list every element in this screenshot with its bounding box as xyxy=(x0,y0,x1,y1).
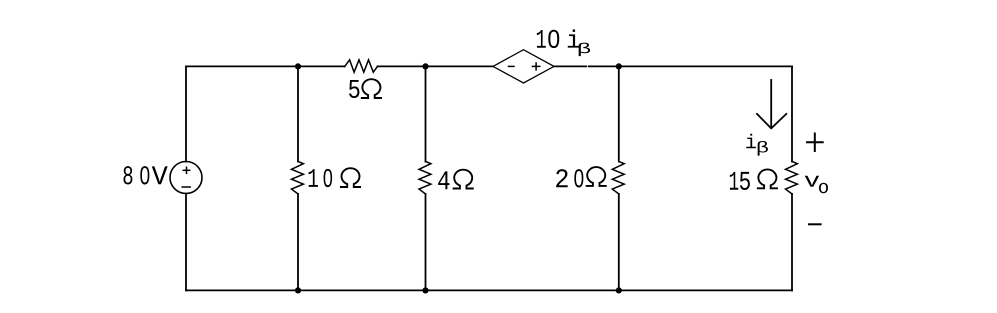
resistor R4 20ohm zigzag xyxy=(612,162,624,194)
resistor R3 4ohm zigzag xyxy=(419,162,431,194)
junction dot top branch3 xyxy=(616,63,622,69)
wire top middle xyxy=(378,65,494,67)
resistor R5 15ohm zigzag xyxy=(786,162,798,194)
wire left vertical lower xyxy=(185,194,187,291)
junction dot bottom branch2 xyxy=(422,287,428,293)
label 20 ohm digits xyxy=(556,169,583,187)
current arrow i beta shaft xyxy=(770,80,772,128)
omega glyph of 4 ohm xyxy=(454,170,473,189)
omega glyph of 5 ohm xyxy=(362,79,381,98)
omega glyph of 10 ohm xyxy=(341,168,360,187)
wire branch2 vertical lower xyxy=(425,194,427,291)
V1 minus sign xyxy=(182,186,190,188)
label 80V xyxy=(123,166,167,184)
current arrow i beta head xyxy=(757,114,786,128)
label 15 ohm digits xyxy=(730,172,750,190)
wire branch2 vertical upper xyxy=(425,66,427,161)
junction dot top branch2 xyxy=(422,63,428,69)
wire left vertical upper xyxy=(185,66,187,161)
junction dot bottom branch1 xyxy=(295,287,301,293)
omega glyph of 20 ohm xyxy=(587,167,606,186)
plus sign of vo xyxy=(807,141,823,143)
label 5 ohm digit xyxy=(349,80,359,98)
voltage source V1 circle xyxy=(170,162,202,194)
wire branch1 vertical upper xyxy=(297,66,299,161)
resistor R1 5ohm zigzag xyxy=(345,60,378,72)
junction dot bottom branch3 xyxy=(616,287,622,293)
wire diamond to gap xyxy=(554,65,586,67)
label 10 i-beta value xyxy=(537,29,590,56)
label 10 ohm digits xyxy=(309,169,333,187)
wire right vertical lower xyxy=(791,194,793,291)
E1 minus sign xyxy=(509,65,515,67)
E1 plus sign xyxy=(532,65,539,67)
wire branch1 vertical lower xyxy=(297,194,299,291)
junction dot top branch1 xyxy=(295,63,301,69)
V1 plus sign xyxy=(183,169,189,171)
dependent source E1 diamond xyxy=(493,50,554,83)
label 4 ohm digit xyxy=(438,171,449,189)
label vo xyxy=(805,176,828,193)
wire branch3 vertical upper xyxy=(618,66,620,161)
wire bottom horizontal xyxy=(186,289,792,291)
label i-beta current xyxy=(746,134,768,156)
wire right vertical upper xyxy=(791,66,793,161)
omega glyph of 15 ohm xyxy=(758,169,777,188)
wire gap to right corner xyxy=(589,65,792,67)
wire branch3 vertical lower xyxy=(618,194,620,291)
wire top left horizontal xyxy=(186,65,345,67)
minus sign of vo xyxy=(809,223,821,225)
resistor R2 10ohm zigzag xyxy=(292,162,304,194)
